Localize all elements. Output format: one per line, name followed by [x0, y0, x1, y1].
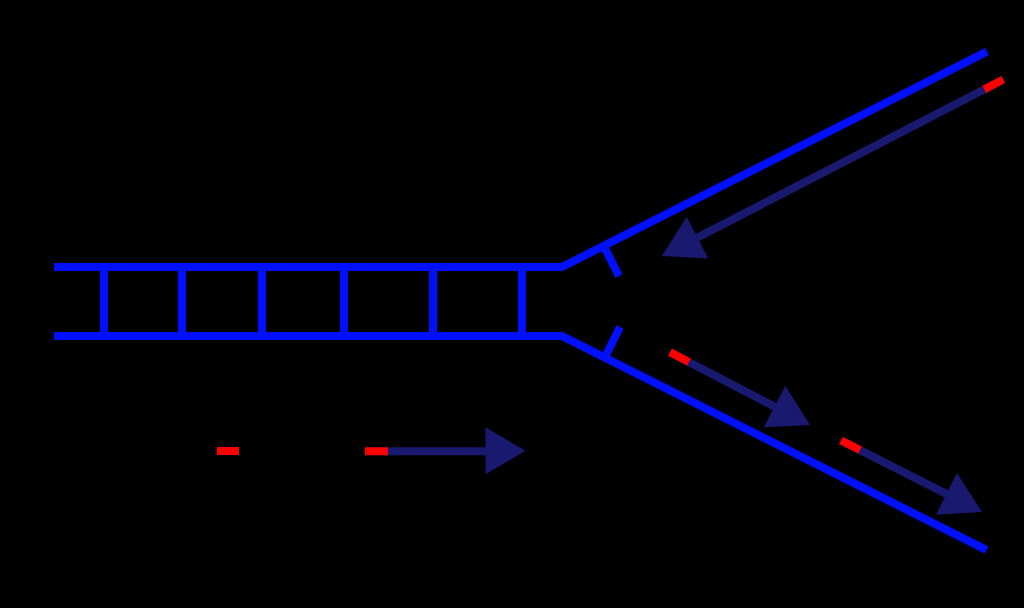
- base-pair rung 4: [340, 265, 348, 338]
- Okazaki fragment 1 arrowhead: [764, 386, 810, 428]
- leading strand arrowhead: [662, 217, 708, 259]
- base-pair rung 3: [258, 265, 266, 338]
- base-pair rung 6: [518, 265, 526, 338]
- legend new-strand arrow line: [365, 447, 486, 455]
- Okazaki fragment 2 RNA primer (red): [841, 440, 860, 450]
- legend arrowhead: [486, 427, 526, 474]
- base-pair rung 5: [429, 265, 437, 338]
- Okazaki fragment 2 arrowhead: [936, 473, 982, 515]
- parental DNA bottom template strand with lower fork arm: [54, 336, 987, 550]
- leading strand RNA primer (red): [984, 80, 1003, 90]
- legend arrow RNA primer (red): [365, 447, 388, 455]
- half rung stub on lower arm: [605, 327, 620, 357]
- half rung stub on upper arm: [604, 247, 619, 277]
- Okazaki fragment 1 RNA primer (red): [670, 352, 689, 362]
- parental DNA top template strand with upper fork arm: [54, 52, 987, 268]
- base-pair rung 1: [100, 265, 108, 338]
- legend RNA primer dash: [217, 447, 239, 455]
- leading strand line (upper arm, toward fork): [698, 80, 1004, 238]
- Okazaki fragment 1 line (lower arm): [670, 352, 775, 406]
- Okazaki fragment 2 line (lower arm): [841, 440, 946, 494]
- base-pair rung 2: [178, 265, 186, 338]
